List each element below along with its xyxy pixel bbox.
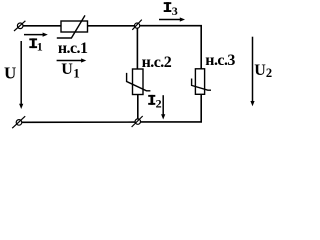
svg-text:U: U <box>61 61 73 78</box>
wire top: element 1 to node <box>88 25 135 27</box>
н.с.2 slash <box>127 73 151 91</box>
nonlinear resistor н.с.1 box <box>61 21 88 32</box>
svg-text:U: U <box>254 62 266 79</box>
н.с.1 slash <box>57 15 85 38</box>
svg-text:1: 1 <box>37 40 43 54</box>
н.с.3 slash <box>192 79 211 91</box>
svg-text:3: 3 <box>172 4 178 18</box>
svg-text:н.с.2: н.с.2 <box>142 54 172 71</box>
svg-text:U: U <box>4 64 16 83</box>
wire element 3 bottom to bottom-right corner <box>140 94 201 122</box>
arrow I1 <box>24 34 43 36</box>
svg-text:н.с.3: н.с.3 <box>205 52 235 69</box>
arrow U2 <box>252 37 254 103</box>
node bottom-middle <box>132 116 143 127</box>
svg-text:2: 2 <box>156 97 162 111</box>
node top-middle <box>132 20 142 30</box>
terminal bottom-left <box>12 116 25 128</box>
svg-text:н.с.1: н.с.1 <box>58 40 88 57</box>
arrow I3 <box>159 19 181 21</box>
arrow U1 <box>57 60 82 62</box>
label I2 <box>148 95 155 105</box>
label I1 <box>29 38 37 48</box>
nonlinear resistor н.с.3 box <box>195 69 204 95</box>
wire top-right with corner down to element 3 <box>140 26 202 69</box>
wire bottom-left <box>22 121 136 123</box>
svg-text:1: 1 <box>73 65 80 80</box>
svg-text:2: 2 <box>266 66 272 80</box>
terminal top-left <box>14 21 25 31</box>
wire element 2 to bottom node <box>137 95 139 120</box>
arrow U (input voltage) <box>20 41 22 105</box>
arrow I2 <box>162 95 164 115</box>
nonlinear resistor н.с.2 box <box>133 69 144 95</box>
wire top: terminal to element 1 <box>23 25 61 27</box>
label I3 <box>164 2 172 12</box>
wire node to element 2 <box>136 28 138 69</box>
